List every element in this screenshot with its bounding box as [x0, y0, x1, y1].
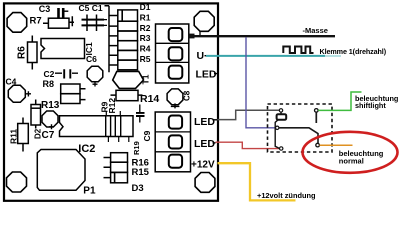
svg-text:C8: C8 — [183, 90, 192, 101]
svg-text:D1: D1 — [140, 2, 151, 12]
diode D1 + resistors R1-R5 stack — [105, 6, 138, 73]
op IC1 — [41, 39, 85, 59]
resistor R14 — [111, 90, 143, 100]
resistor R11 — [18, 118, 29, 152]
mounting hole bottom-left — [7, 172, 27, 192]
svg-text:LED: LED — [194, 116, 215, 128]
svg-text:C9: C9 — [142, 130, 152, 141]
capacitors C5 C1 — [82, 15, 108, 32]
svg-text:R3: R3 — [140, 33, 151, 43]
svg-text:R15: R15 — [132, 167, 150, 178]
resistors R8 (pair) — [61, 84, 86, 104]
wire -Masse (black) — [189, 35, 335, 37]
capacitor C3 — [59, 8, 69, 18]
svg-text:R7: R7 — [30, 16, 42, 27]
capacitor C9 — [136, 105, 145, 123]
svg-text:R1: R1 — [140, 12, 151, 22]
svg-text:R11: R11 — [9, 129, 19, 144]
svg-text:R8: R8 — [43, 79, 55, 89]
relay coil — [275, 109, 286, 150]
wire common->switch — [279, 128, 318, 143]
svg-text:R5: R5 — [140, 54, 151, 64]
mounting hole top-right — [194, 11, 214, 31]
svg-text:C6: C6 — [86, 54, 97, 64]
wire LED->relay coil (dark grey) — [217, 110, 279, 119]
svg-text:R13: R13 — [41, 100, 60, 111]
resistor R7 — [43, 16, 74, 28]
svg-text:C2: C2 — [44, 69, 55, 79]
svg-text:IC2: IC2 — [78, 143, 95, 155]
connector K1 footprint (long box) — [60, 111, 134, 142]
wire Masse->relay (blue) — [246, 37, 276, 128]
svg-text:shiftlight: shiftlight — [355, 101, 386, 110]
svg-text:C7: C7 — [42, 130, 55, 141]
svg-text:P1: P1 — [83, 186, 96, 197]
wire shiftlight (green) — [318, 92, 361, 110]
mounting hole top-left — [7, 13, 27, 33]
relay contact bottom — [316, 143, 320, 147]
wire Klemme1 (teal) — [206, 55, 325, 57]
svg-text:LED: LED — [196, 69, 217, 81]
svg-text:+12volt zündung: +12volt zündung — [257, 191, 316, 200]
svg-text:-Masse: -Masse — [303, 26, 328, 35]
PCB board outline — [4, 3, 218, 200]
relay common node — [276, 126, 279, 129]
svg-text:LED: LED — [194, 138, 215, 150]
transistor T1 — [113, 71, 144, 88]
relay contact top — [315, 109, 319, 113]
svg-text:C5 C1: C5 C1 — [79, 3, 103, 13]
mounting hole bottom-right — [195, 173, 215, 193]
diode D2 pad + capacitor C7 — [42, 111, 58, 127]
resistors R16 R15 + diode D3 stack — [104, 153, 128, 183]
svg-text:R14: R14 — [140, 93, 159, 105]
svg-text:U: U — [197, 50, 205, 62]
IC2 / P1 body — [37, 150, 85, 191]
masse pad at block — [188, 34, 195, 39]
wire +12V zuendung (yellow) — [218, 163, 296, 200]
svg-text:+12V: +12V — [191, 160, 215, 171]
svg-text:R12: R12 — [107, 98, 117, 114]
svg-text:R4: R4 — [140, 44, 151, 54]
wire beleuchtung normal (orange) — [320, 144, 353, 146]
highlight ellipse (red) — [303, 132, 398, 173]
svg-text:T1: T1 — [141, 74, 151, 84]
svg-text:C3: C3 — [39, 4, 51, 14]
relay dashed enclosure — [268, 104, 333, 152]
svg-text:R19: R19 — [132, 141, 141, 155]
capacitor C2 — [55, 69, 78, 78]
resistor R6 — [28, 36, 38, 70]
terminal block bottom (3-pin) — [155, 112, 190, 172]
capacitor C8 pad — [167, 89, 183, 105]
svg-text:R6: R6 — [17, 46, 28, 59]
square wave signal glyph — [283, 47, 313, 54]
svg-text:Klemme 1(drehzahl): Klemme 1(drehzahl) — [320, 47, 387, 56]
resistor R13 — [31, 100, 41, 129]
svg-text:normal: normal — [339, 157, 364, 166]
svg-text:D3: D3 — [132, 183, 144, 194]
wire LED->relay (red) — [216, 142, 280, 148]
svg-text:R2: R2 — [140, 23, 151, 33]
terminal block top (3-pin) — [156, 24, 189, 83]
